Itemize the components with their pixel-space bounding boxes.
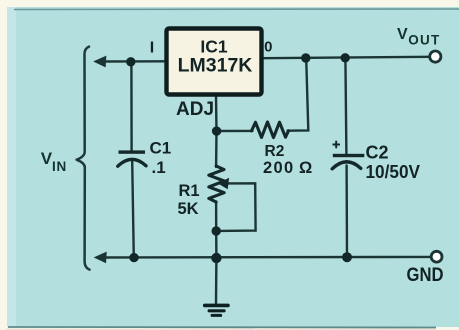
terminal GND: [431, 251, 442, 262]
svg-text:200 Ω: 200 Ω: [263, 159, 314, 177]
resistor R2 zigzag: [252, 122, 289, 138]
panel top edge line: [14, 8, 459, 11]
svg-text:5K: 5K: [178, 200, 199, 218]
capacitor C2: [332, 141, 364, 169]
svg-text:R2: R2: [265, 143, 285, 160]
svg-text:I: I: [150, 40, 154, 57]
svg-text:ADJ: ADJ: [176, 99, 214, 120]
svg-text:C1: C1: [150, 138, 172, 157]
wire: top rail from arrow to IC input: [100, 60, 164, 63]
svg-text:.1: .1: [152, 158, 166, 177]
wire: bottom rail: [101, 256, 430, 259]
wire: wiper node to bottom rail: [215, 231, 218, 258]
wire: C1 branch lower: [132, 162, 134, 258]
junction dot: wiper node: [212, 226, 221, 235]
terminal Vout: [430, 51, 441, 62]
node label Vin: [41, 149, 67, 174]
junction dot: ADJ/R2 node: [212, 126, 221, 135]
ground symbol: [203, 304, 230, 317]
junction dot: C1/bottom rail: [129, 253, 138, 262]
wire: C2 branch lower: [345, 166, 348, 258]
svg-text:0: 0: [264, 39, 272, 56]
wire: R2 node to R1 top: [215, 131, 218, 167]
wire: C1 branch upper: [130, 62, 133, 151]
svg-text:IN: IN: [52, 159, 67, 174]
potentiometer R1 wiper arrowhead: [219, 179, 229, 189]
junction dot: output/C2 node: [341, 53, 350, 62]
svg-text:OUT: OUT: [408, 33, 440, 48]
svg-text:C2: C2: [366, 142, 389, 162]
junction dot: C2/bottom rail: [342, 252, 352, 262]
wire: IC ADJ pin down to R2 node: [215, 96, 218, 131]
Vin brace: [77, 47, 90, 270]
wire: R1 bottom to wiper node: [215, 202, 217, 232]
capacitor C1: [118, 150, 146, 166]
junction dot: center/bottom rail: [211, 253, 221, 263]
wire: IC output to Vout terminal: [263, 57, 429, 58]
svg-text:R1: R1: [179, 182, 200, 200]
wire: bottom rail to ground: [215, 258, 218, 304]
resistor R1 zigzag (potentiometer element): [209, 166, 224, 202]
arrow left (bottom Vin return): [95, 252, 106, 262]
wire: R2 node to R2 left end: [217, 130, 253, 133]
panel bottom edge line: [8, 326, 436, 329]
wire: R2 right end to riser corner: [288, 58, 309, 130]
svg-text:V: V: [397, 26, 408, 43]
node label Vout: [397, 26, 440, 48]
svg-text:V: V: [41, 149, 53, 168]
svg-text:GND: GND: [407, 264, 444, 286]
svg-text:10/50V: 10/50V: [366, 162, 421, 182]
junction dot: output/R2 riser node: [301, 53, 310, 62]
IC U1 LM317K body: [167, 29, 262, 95]
arrow left (top Vin feed): [94, 56, 105, 66]
junction dot: Vin/C1 node: [126, 57, 135, 66]
wire: C2 branch upper: [345, 58, 346, 154]
wire: R1 wiper arm: [221, 183, 256, 231]
bottom margin strip: [6, 329, 436, 330]
svg-text:LM317K: LM317K: [178, 54, 253, 76]
